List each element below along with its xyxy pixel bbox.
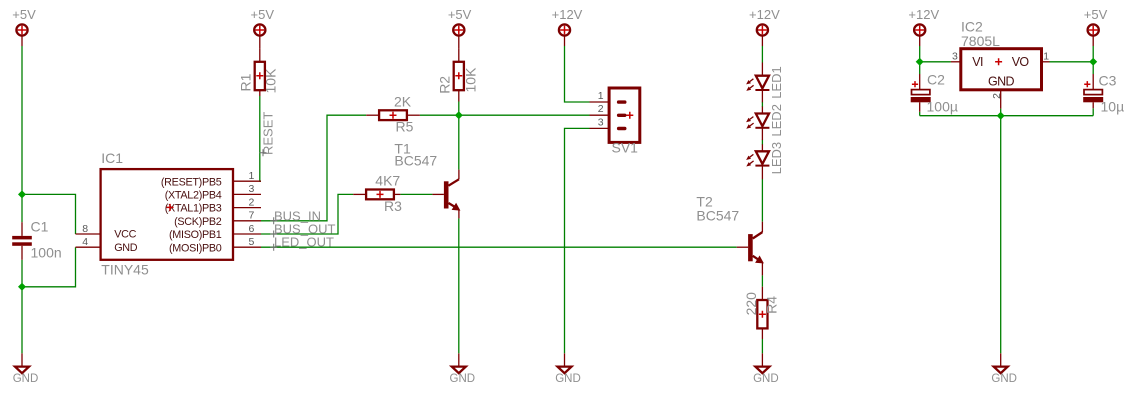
ground G2 [450,353,476,385]
resistor R2 10K vertical [437,49,479,102]
svg-text:GND: GND [114,242,138,254]
svg-text:C1: C1 [31,219,49,235]
wire node B to IC1 GND [22,247,76,287]
ground G1 [13,353,39,385]
LED LED1 [746,63,784,103]
wire +5V to node A [21,46,23,194]
svg-text:R2: R2 [437,76,453,94]
wire node A to C1 [21,194,23,222]
wire node C to T1 collector [458,115,460,169]
svg-text:VO: VO [1012,55,1030,69]
svg-text:4K7: 4K7 [375,173,400,189]
IC2 pin 1 VO [1042,50,1050,62]
svg-text:C3: C3 [1099,73,1117,89]
IC1 pin 8 VCC [76,223,137,241]
svg-text:BC547: BC547 [394,152,437,168]
svg-text:+5V: +5V [251,7,275,22]
wire C1 to node B [21,260,23,287]
svg-text:GND: GND [988,74,1015,88]
svg-text:+5V: +5V [1084,7,1108,22]
svg-text:2: 2 [991,93,1003,99]
svg-text:2: 2 [249,196,255,208]
op-amp IC1 TINY45 body [101,150,233,278]
svg-text:1: 1 [1043,50,1049,62]
LED LED3 [746,142,784,179]
wire IC2 pin2 to node E [1000,109,1002,116]
IC1 pin 2 (XTAL1)PB3 [165,196,261,214]
IC2 pin 3 VI [951,50,961,62]
svg-text:1: 1 [598,90,604,102]
IC1 pin 3 (XTAL2)PB4 [165,183,261,201]
resistor R5 2K horizontal [366,94,420,135]
connector SV1 body [609,88,640,155]
svg-text:8: 8 [82,223,88,235]
svg-text:7: 7 [249,210,255,222]
svg-text:100n: 100n [31,245,62,261]
svg-text:VI: VI [972,55,983,69]
svg-text:IC1: IC1 [101,150,123,166]
svg-text:3: 3 [598,116,604,128]
svg-text:SV1: SV1 [612,139,639,155]
svg-text:+12V: +12V [552,7,583,22]
wire RESET net R1 to IC1 pin1 [260,96,261,181]
wire +12V to node D [919,46,921,62]
+12V supply P6 [908,7,939,46]
net label LED_OUT [270,235,334,251]
wire T2 emitter to R4 [761,275,763,286]
svg-text:10µ: 10µ [1101,99,1125,115]
svg-text:IC2: IC2 [961,18,983,34]
wire node B to ground G1 [21,287,23,354]
svg-text:LED_OUT: LED_OUT [274,235,334,250]
+12V supply P4 [552,7,583,46]
wire bus net R5 to SV1 pin2 through node C [420,114,590,116]
wire R4 to ground G4 [761,339,763,353]
wire +5V to node F [1092,46,1094,62]
transistor T2 BC547 [696,193,764,275]
ground G4 [753,353,779,385]
svg-text:2K: 2K [394,94,412,110]
+5V supply P1 [12,7,36,46]
svg-text:6: 6 [249,223,255,235]
net label RESET [260,112,276,157]
svg-text:R1: R1 [238,73,254,91]
SV1 pin 2 [590,103,627,117]
svg-text:7805L: 7805L [961,33,1000,49]
node E junction [997,112,1005,120]
svg-text:GND: GND [991,373,1017,385]
svg-text:3: 3 [249,183,255,195]
svg-text:2: 2 [598,103,604,115]
wire LED2 to LED3 [761,140,763,145]
svg-text:RESET: RESET [261,112,276,155]
svg-text:C2: C2 [927,72,945,88]
svg-text:GND: GND [753,373,779,385]
svg-text:LED3: LED3 [769,142,784,175]
svg-text:4: 4 [82,236,88,248]
IC2 pin 2 GND [991,90,1003,109]
node F junction [1089,58,1097,66]
svg-text:BC547: BC547 [696,207,739,223]
resistor R4 220 vertical [743,287,780,339]
svg-text:R3: R3 [384,198,402,214]
svg-text:5: 5 [249,236,255,248]
wire R3 to T1 base [400,193,432,195]
svg-text:(XTAL2)PB4: (XTAL2)PB4 [165,190,222,202]
node D junction [916,58,924,66]
ground G5 [991,353,1017,385]
capacitor C3 10u polarized [1083,73,1124,115]
+12V supply P5 [749,7,780,46]
resistor R3 4K7 horizontal [353,173,402,215]
svg-text:100µ: 100µ [927,98,958,114]
svg-text:VCC: VCC [114,229,136,241]
wire node F to C3 [1092,62,1094,74]
IC1 pin 7 (SCK)PB2 [174,210,261,228]
svg-text:(XTAL1)PB3: (XTAL1)PB3 [165,203,222,215]
svg-text:+5V: +5V [12,7,36,22]
svg-text:10K: 10K [463,67,479,93]
svg-text:+12V: +12V [908,7,939,22]
wire BUS_IN net IC1 pin7 to R5 [261,115,366,221]
wire IC2 pin1 to node F [1050,61,1094,63]
voltage regulator IC2 7805L body [961,18,1042,90]
IC1 pin 4 GND [76,236,138,254]
capacitor C1 100n [12,219,61,261]
wire R2 to node C [458,102,460,116]
svg-text:(MOSI)PB0: (MOSI)PB0 [169,242,222,254]
wire C2 to ground rail [919,112,921,116]
wire LED_OUT net IC1 pin5 to T2 base [261,246,737,248]
IC1 pin 1 (RESET)PB5 [161,170,261,188]
transistor T1 BC547 [394,140,460,218]
svg-text:GND: GND [450,373,476,385]
node A junction [18,190,26,198]
wire node E to ground G5 [1000,116,1002,354]
+5V supply P7 [1084,7,1108,46]
svg-text:+12V: +12V [749,7,780,22]
wire node A to IC1 VCC [22,194,76,234]
IC1 pin 6 (MISO)PB1 [169,223,261,241]
wire SV1 pin3 to ground G3 [565,128,590,353]
wire LED3 to T2 collector [761,179,763,222]
wire T1 emitter to ground G2 [458,218,460,353]
svg-text:GND: GND [555,373,581,385]
svg-text:(SCK)PB2: (SCK)PB2 [174,216,222,228]
svg-text:1: 1 [249,170,255,182]
svg-text:(MISO)PB1: (MISO)PB1 [169,229,222,241]
wire node D to C2 [919,62,921,74]
svg-text:LED1: LED1 [769,66,784,99]
wire LED1 to LED2 [761,102,763,107]
SV1 pin 3 [590,116,627,130]
svg-text:R4: R4 [763,296,779,314]
svg-text:R5: R5 [396,119,414,135]
wire BUS_OUT net IC1 pin6 to R3 [261,194,353,234]
svg-text:GND: GND [13,373,39,385]
wire +12V to SV1 pin1 [565,46,590,102]
+5V supply P3 [448,7,472,49]
IC1 pin 5 (MOSI)PB0 [169,236,261,254]
resistor R1 10K vertical [238,49,279,96]
SV1 pin 1 [590,90,627,104]
wire C3 to ground rail [1092,108,1094,115]
capacitor C2 100u polarized [911,72,958,115]
svg-text:+5V: +5V [448,7,472,22]
wire +12V to LED1 anode [761,46,763,63]
svg-text:3: 3 [952,50,958,62]
svg-text:220: 220 [743,292,759,316]
svg-text:LED2: LED2 [769,104,784,137]
LED LED2 [746,104,784,140]
node C junction [455,111,463,119]
node B junction [18,283,26,291]
svg-text:10K: 10K [263,68,279,94]
+5V supply P2 [251,7,275,49]
ground G3 [555,353,581,385]
svg-text:(RESET)PB5: (RESET)PB5 [161,176,222,188]
net label BUS_IN [270,208,321,224]
svg-text:TINY45: TINY45 [101,261,149,277]
wire node D to IC2 pin3 [920,61,951,63]
wire ground rail C2 to C3 [920,115,1093,117]
net label BUS_OUT [270,222,335,238]
